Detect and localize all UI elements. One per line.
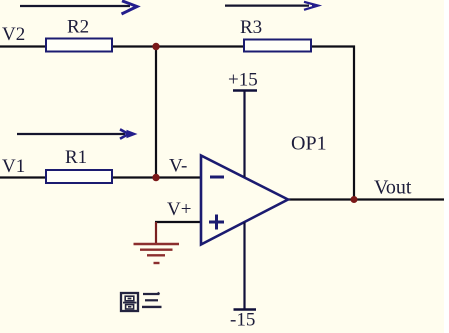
op-amp inverting pin minus sign <box>210 176 224 179</box>
wire node A vertical down to V- <box>155 47 157 179</box>
-15 supply bar <box>230 222 256 330</box>
label OP1 <box>291 133 327 155</box>
wire R3 to output corner <box>310 45 355 47</box>
svg-text:Vout: Vout <box>374 177 412 199</box>
label Vout <box>374 177 412 199</box>
svg-text:V-: V- <box>169 156 187 177</box>
wire V1 input to R1 <box>0 176 47 178</box>
arrow current direction top-right <box>225 2 321 10</box>
wire V2 input to R2 <box>0 45 47 47</box>
arrow current direction top-left <box>20 1 137 14</box>
wire output Vout <box>287 198 445 200</box>
wire R2 to node A and to R3 <box>111 45 245 47</box>
ground <box>134 222 180 263</box>
op-amp non-inverting pin plus sign <box>209 215 224 230</box>
svg-text:V2: V2 <box>2 24 25 45</box>
label V- <box>169 156 187 177</box>
resistor R2 <box>46 17 112 52</box>
svg-text:-15: -15 <box>230 310 255 331</box>
svg-text:V1: V1 <box>2 156 25 177</box>
label V1 <box>2 156 25 177</box>
op-amp U1 triangle <box>201 156 288 245</box>
svg-text:R2: R2 <box>67 17 89 38</box>
resistor R1 <box>46 147 112 183</box>
label figure three (CJK drawn as strokes) <box>121 293 162 311</box>
node Vout junction dot <box>351 196 358 203</box>
label V2 <box>2 24 25 45</box>
wire feedback vertical right <box>353 46 355 201</box>
wire R1 to inverting input <box>111 176 201 178</box>
label V+ <box>167 199 191 220</box>
node B junction dot at V- <box>152 174 159 181</box>
arrow current direction above R1 <box>17 129 138 139</box>
svg-text:R1: R1 <box>65 147 87 168</box>
+15 supply bar <box>228 70 258 178</box>
svg-text:V+: V+ <box>167 199 191 220</box>
wire non-inverting input V+ <box>155 221 201 223</box>
resistor R3 <box>240 17 311 52</box>
node A junction dot <box>152 43 159 50</box>
svg-text:+15: +15 <box>228 70 258 91</box>
svg-text:R3: R3 <box>240 17 262 38</box>
svg-text:OP1: OP1 <box>291 133 327 155</box>
right margin strip <box>444 0 449 333</box>
